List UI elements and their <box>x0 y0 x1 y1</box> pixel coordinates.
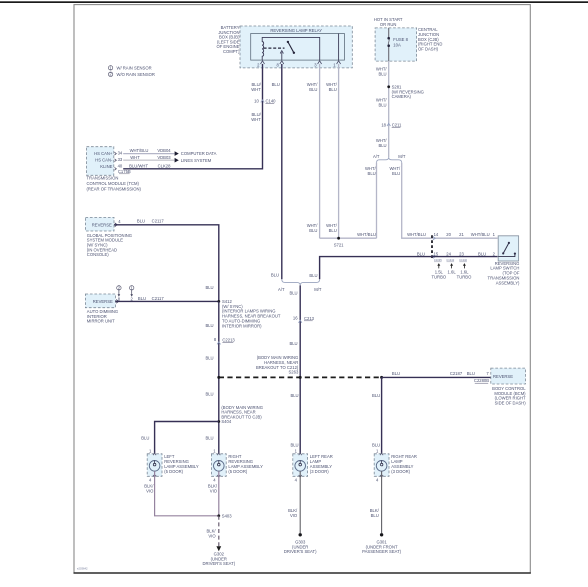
relay pin 3 <box>314 61 321 68</box>
wire BLK/VIO: right reversing lamp to S403 <box>208 471 219 516</box>
svg-text:1.6L: 1.6L <box>448 269 457 274</box>
svg-text:C175B: C175B <box>118 169 131 174</box>
svg-text:BLU: BLU <box>372 393 380 398</box>
svg-text:C1340: C1340 <box>459 258 467 262</box>
svg-text:CONSOLE): CONSOLE) <box>87 252 109 257</box>
right rear lamp assembly <box>374 449 417 483</box>
svg-text:OF DASH): OF DASH) <box>418 46 439 51</box>
svg-text:14: 14 <box>434 232 439 237</box>
svg-text:BLU: BLU <box>289 290 297 295</box>
svg-text:BLU: BLU <box>290 393 298 398</box>
dashed splice bus S263 <box>217 376 383 379</box>
svg-text:C1342: C1342 <box>446 258 454 262</box>
svg-text:WHT/BLU: WHT/BLU <box>407 232 426 237</box>
relay pin 2 <box>257 61 264 68</box>
svg-text:10: 10 <box>254 99 259 104</box>
svg-text:15: 15 <box>434 251 439 256</box>
wire WHT/BLU: TCM HS CAN+ data line <box>123 148 174 153</box>
wire WHT/BLU A/T branch down-left to S721 <box>365 163 377 239</box>
svg-text:(5 DOOR): (5 DOOR) <box>164 469 183 474</box>
svg-text:BLU/WHT: BLU/WHT <box>129 163 148 168</box>
svg-text:COMPUTER DATA: COMPUTER DATA <box>181 151 217 156</box>
svg-text:BLU: BLU <box>478 251 486 256</box>
svg-text:(3 DOOR): (3 DOOR) <box>310 469 329 474</box>
svg-text:BLU: BLU <box>137 219 145 224</box>
GPS module (global positioning system, REVERSE output) <box>85 217 132 257</box>
svg-text:A/T: A/T <box>278 287 285 292</box>
ground G302 <box>202 546 235 566</box>
wire WHT/BLU: relay pin 3 down to splice S721 run <box>307 64 320 238</box>
ground G301 <box>362 533 402 554</box>
svg-text:40: 40 <box>118 164 123 169</box>
svg-text:KLINE: KLINE <box>100 164 112 169</box>
svg-text:W/O RAIN SENSOR: W/O RAIN SENSOR <box>117 72 155 77</box>
wire WHT/BLU: relay pin 1 down to splice S721 <box>326 64 339 238</box>
right reversing lamp assembly <box>211 449 263 483</box>
svg-text:BLU: BLU <box>205 285 213 290</box>
wire BLU: relay pin 8 down to A/T merge brace <box>271 64 282 279</box>
svg-text:C2280B: C2280B <box>474 378 489 383</box>
svg-text:WHT/BLU: WHT/BLU <box>130 148 149 153</box>
svg-text:CONTROL MODULE (TCM): CONTROL MODULE (TCM) <box>87 181 140 186</box>
svg-text:VIO: VIO <box>208 534 216 539</box>
svg-text:VIO: VIO <box>290 513 298 518</box>
svg-text:WHT: WHT <box>130 155 140 160</box>
central junction box label <box>418 27 442 51</box>
fuse F8 10A in Central Junction Box <box>375 28 417 61</box>
svg-text:C2117: C2117 <box>152 219 165 224</box>
svg-text:HS CAN+: HS CAN+ <box>94 151 113 156</box>
wire BLK/VIO: left rear lamp to ground G303 <box>288 471 300 533</box>
svg-text:PASSENGER SEAT): PASSENGER SEAT) <box>362 549 402 554</box>
svg-text:C140: C140 <box>266 99 277 104</box>
svg-text:BLU: BLU <box>329 87 337 92</box>
data arrow: COMPUTER DATA <box>175 151 217 156</box>
wire BLU: bus down to right rear lamp <box>372 377 382 460</box>
svg-text:BLU: BLU <box>272 82 280 87</box>
svg-text:C2213: C2213 <box>222 337 235 342</box>
svg-text:23: 23 <box>459 251 464 256</box>
svg-text:BLU: BLU <box>141 436 149 441</box>
relay pin 8 <box>276 61 283 68</box>
svg-text:BLU: BLU <box>467 371 475 376</box>
connector C213 (16) <box>293 316 315 323</box>
TCM module (transmission control module) <box>87 147 142 192</box>
svg-text:C2187: C2187 <box>450 371 463 376</box>
wire label BLU/WHT on TCM KLINE row <box>129 163 171 168</box>
svg-text:BLU: BLU <box>378 143 386 148</box>
reversing lamp switch (top of transmission assembly) <box>488 236 520 286</box>
svg-text:DRIVER'S SEAT): DRIVER'S SEAT) <box>202 561 235 566</box>
svg-text:C211: C211 <box>392 123 402 128</box>
left rear lamp assembly <box>293 449 333 483</box>
svg-text:S403: S403 <box>222 513 232 518</box>
splice S403 <box>217 513 232 518</box>
connector C2213 (8) <box>214 337 236 344</box>
svg-text:HS CAN-: HS CAN- <box>95 157 113 162</box>
svg-text:BLU: BLU <box>329 228 337 233</box>
svg-text:BLU: BLU <box>309 228 317 233</box>
svg-text:(5 DOOR): (5 DOOR) <box>228 469 247 474</box>
harness note near S263 <box>256 355 299 374</box>
svg-text:WHT/BLU: WHT/BLU <box>357 232 376 237</box>
relay switch contact <box>287 41 295 54</box>
splice S412 <box>217 299 280 328</box>
inline connectors C1035 / C1342 / C1340 (engine variants) <box>431 232 472 279</box>
svg-text:SIDE OF DASH): SIDE OF DASH) <box>495 401 527 406</box>
svg-text:C2117: C2117 <box>152 296 165 301</box>
relay: REVERSING LAMP RELAY (in Battery Junction Box) <box>240 26 352 68</box>
wire WHT/BLU: fuse to A/T-M/T split brace <box>376 61 389 157</box>
svg-text:BLU: BLU <box>205 323 213 328</box>
svg-text:LINES SYSTEM: LINES SYSTEM <box>181 158 212 163</box>
svg-text:CAMERA): CAMERA) <box>392 94 412 99</box>
splice S281 <box>387 84 424 99</box>
wire BLU: merged feed down to left rear lamp, through splice bus <box>289 285 300 460</box>
svg-text:VDB04: VDB04 <box>157 148 171 153</box>
auto-dimming interior mirror (REVERSE output) <box>85 294 118 324</box>
relay pin 1 <box>333 61 340 68</box>
svg-text:24: 24 <box>446 251 451 256</box>
wire WHT: TCM HS CAN- data line <box>123 155 174 160</box>
wire BLU: GPS pin 4 to splice S412 bus <box>114 219 219 302</box>
connector C140 (10) on relay pin2 wire <box>254 99 276 104</box>
svg-text:BLU: BLU <box>205 355 213 360</box>
svg-text:BLU: BLU <box>378 102 386 107</box>
legend note 2: W/O RAIN SENSOR <box>108 72 154 77</box>
wire BLK/VIO: left reversing lamp to S403 <box>144 471 218 516</box>
left reversing lamp assembly <box>147 449 199 483</box>
svg-text:ASSEMBLY): ASSEMBLY) <box>496 280 520 285</box>
svg-text:S404: S404 <box>221 419 231 424</box>
svg-text:VIO: VIO <box>210 488 218 493</box>
relay armature dashed link <box>264 47 285 49</box>
svg-text:BLU: BLU <box>417 251 425 256</box>
wire BLU: switch pin 2 return to M/T merge brace <box>309 251 497 279</box>
svg-text:(3 DOOR): (3 DOOR) <box>391 469 410 474</box>
relay coil <box>262 37 320 60</box>
svg-text:BLU: BLU <box>205 392 213 397</box>
wire BLU: mirror to splice S412 <box>115 296 218 301</box>
svg-text:(REAR OF TRANSMISSION): (REAR OF TRANSMISSION) <box>87 186 142 191</box>
svg-text:BLU: BLU <box>378 71 386 76</box>
svg-text:BLU: BLU <box>368 171 376 176</box>
svg-text:BLU: BLU <box>309 273 317 278</box>
svg-text:34: 34 <box>118 150 123 155</box>
svg-text:W/ RAIN SENSOR: W/ RAIN SENSOR <box>117 65 152 70</box>
svg-text:TRANSMISSION: TRANSMISSION <box>87 176 119 181</box>
svg-text:REVERSE: REVERSE <box>493 374 513 379</box>
svg-text:M/T: M/T <box>314 287 322 292</box>
brace merge A/T + M/T into single BLU feed <box>278 279 322 292</box>
svg-text:TURBO: TURBO <box>431 274 446 279</box>
svg-text:VDB03: VDB03 <box>157 155 171 160</box>
svg-text:BLU: BLU <box>205 436 213 441</box>
svg-text:TURBO: TURBO <box>457 274 472 279</box>
svg-text:BLU: BLU <box>371 513 379 518</box>
option tag circled 1 over pin 2 <box>130 285 134 301</box>
svg-text:10A: 10A <box>393 42 401 47</box>
wire BLU: S412 down to right reversing lamp / S404 <box>205 301 218 460</box>
wire WHT/BLU M/T branch down-right to reversing lamp switch <box>389 163 497 239</box>
svg-text:M/T: M/T <box>398 154 406 159</box>
data arrow: LINES SYSTEM <box>175 158 212 163</box>
svg-text:BLU: BLU <box>138 296 146 301</box>
BCM module (body control module) <box>491 368 526 405</box>
svg-text:WHT/BLU: WHT/BLU <box>471 232 490 237</box>
svg-text:A/T: A/T <box>373 154 380 159</box>
svg-text:BLU: BLU <box>289 341 297 346</box>
wire BLU: bus to BCM REVERSE input <box>382 371 491 383</box>
svg-text:REVERSE: REVERSE <box>93 299 113 304</box>
svg-text:DRIVER'S SEAT): DRIVER'S SEAT) <box>284 549 317 554</box>
connector C211 (18) <box>381 122 402 127</box>
svg-text:BLU: BLU <box>271 273 279 278</box>
battery junction box label <box>216 25 240 54</box>
svg-text:BLU: BLU <box>309 87 317 92</box>
brace split A/T and M/T branches <box>373 154 406 163</box>
relay pin-1 stub <box>338 34 340 61</box>
svg-text:INTERIOR MIRROR): INTERIOR MIRROR) <box>222 323 262 328</box>
svg-text:WHT: WHT <box>251 87 261 92</box>
svg-text:S263: S263 <box>289 370 299 375</box>
svg-text:BLU: BLU <box>290 442 298 447</box>
harness note near S404 <box>221 405 263 424</box>
legend note 1: W/ RAIN SENSOR <box>108 65 151 70</box>
svg-text:WHT: WHT <box>251 117 261 122</box>
svg-text:REVERSE: REVERSE <box>92 222 112 227</box>
svg-text:C213: C213 <box>304 316 315 321</box>
svg-text:21: 21 <box>459 232 464 237</box>
svg-text:C1035: C1035 <box>434 258 442 262</box>
wire BLK/BLU: right rear lamp to ground G301 <box>370 471 382 533</box>
svg-text:20: 20 <box>446 232 451 237</box>
svg-text:e203642: e203642 <box>77 567 88 571</box>
splice S721 <box>334 237 344 248</box>
svg-text:CLK28: CLK28 <box>158 163 171 168</box>
wire BLU/WHT: relay pin 2 down, left to TCM pin 40 <box>123 64 262 169</box>
wire BLU: S404 branch to left reversing lamp <box>141 422 219 461</box>
svg-text:VIO: VIO <box>146 488 154 493</box>
svg-text:COMPT): COMPT) <box>223 49 240 54</box>
relay pin-8 stub <box>280 51 283 61</box>
wire WHT/BLU: S721 horizontal run <box>320 232 377 238</box>
ground G303 <box>284 533 317 554</box>
option tag circled 2 over pin 8 <box>117 285 121 301</box>
svg-text:REVERSING LAMP RELAY: REVERSING LAMP RELAY <box>270 28 322 33</box>
svg-text:16: 16 <box>293 316 298 321</box>
svg-text:BLU: BLU <box>392 171 400 176</box>
svg-text:BLU: BLU <box>372 442 380 447</box>
svg-text:MIRROR UNIT: MIRROR UNIT <box>87 319 115 324</box>
svg-text:33: 33 <box>118 157 123 162</box>
svg-text:S721: S721 <box>334 243 344 248</box>
power feed label <box>374 17 403 27</box>
svg-text:OR RUN: OR RUN <box>380 22 397 27</box>
wire BLK/VIO dashed: S403 to ground G302 <box>207 516 219 546</box>
svg-text:18: 18 <box>381 122 386 127</box>
svg-text:BLU: BLU <box>392 371 400 376</box>
splice S404 <box>217 420 220 423</box>
